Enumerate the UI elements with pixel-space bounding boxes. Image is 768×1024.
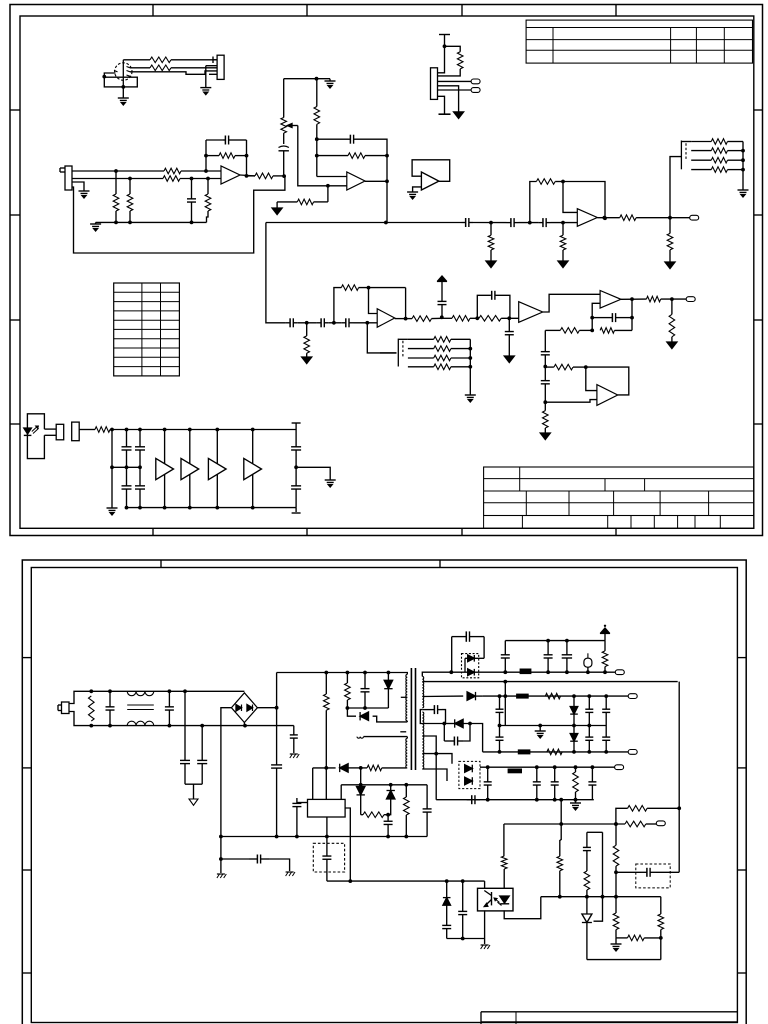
bridge rectifier BR1 <box>231 693 257 723</box>
wire fb sense column <box>677 682 681 873</box>
wire R1 to J2 <box>171 59 217 61</box>
terminal bar <box>439 113 451 115</box>
supply flag PWR2 <box>600 625 610 641</box>
output node OUT2 <box>686 297 695 302</box>
wire J7 pin1 <box>438 35 447 73</box>
op-amp A4 <box>577 209 597 227</box>
wire tl431 bottom <box>587 938 661 960</box>
wire A8 plus <box>586 367 597 391</box>
ferrite bead FB4 <box>508 769 522 773</box>
wire out4 rail <box>480 765 615 769</box>
wire ref line <box>541 895 661 899</box>
capacitor C11 <box>592 313 634 322</box>
resistor R13 <box>304 323 310 357</box>
wire A4 plus <box>563 182 577 213</box>
op-amp A2 <box>347 172 365 190</box>
capacitor C45 <box>585 726 593 752</box>
ferrite bead FB3 <box>518 750 530 754</box>
wire R3 to A1 <box>181 169 221 173</box>
potentiometer VR1 <box>281 79 298 133</box>
wire out3 rail <box>483 750 629 754</box>
sheet 2 title block <box>481 1012 737 1024</box>
wire A7 out <box>621 298 647 300</box>
diode D3 <box>347 708 407 722</box>
wire wiper run <box>298 126 330 188</box>
capacitor C3 <box>279 133 289 176</box>
op-amp A1 <box>221 166 240 184</box>
output node OUT5 <box>628 750 637 755</box>
wire R4 to A1 <box>180 177 221 181</box>
wire bridge plus <box>257 673 276 708</box>
wire DC+ rail <box>277 671 407 675</box>
wire stage rail <box>266 221 462 320</box>
capacitor C1 <box>187 179 196 223</box>
choke L1 <box>127 691 154 725</box>
capacitor C34 <box>322 843 331 881</box>
wire sec4 bottom <box>422 769 447 781</box>
capacitor C28 <box>290 726 298 753</box>
wire J7 pin4 <box>438 86 459 112</box>
dashed box X2 <box>636 864 670 888</box>
ground GND24 <box>570 800 581 810</box>
sheet 2 outer border <box>22 560 746 1024</box>
TL431 U7 <box>582 910 592 960</box>
supply bar PWR3 <box>439 34 450 36</box>
wire aux line <box>313 766 363 770</box>
wire 12v feed <box>560 800 562 824</box>
wire snubber bottom <box>347 706 388 710</box>
wire ref jog <box>594 832 603 921</box>
output node OUT3 <box>615 670 624 675</box>
capacitor C6 <box>286 318 298 327</box>
ground GND5 <box>325 79 336 88</box>
resistor R26 <box>530 179 565 223</box>
buffer U3 <box>208 430 226 508</box>
capsule housing <box>104 77 137 87</box>
wire c7-c8 <box>329 321 342 325</box>
wire R14 right <box>359 286 408 321</box>
wire J7 pin6 <box>438 96 445 114</box>
connector J3 input jack <box>60 166 72 190</box>
resistor R12 <box>317 153 389 159</box>
wire R2 to J2 <box>171 67 217 69</box>
ground GND17 <box>107 508 118 515</box>
buffer U4 <box>244 430 262 508</box>
dual diode D12 box <box>459 761 480 788</box>
resistor R4 <box>163 176 180 182</box>
wire c15-c16 <box>519 221 539 225</box>
op-amp A8 <box>597 385 618 406</box>
capacitor C12 <box>541 330 550 368</box>
capacitor C46 <box>602 726 610 752</box>
ground GND25 <box>481 945 490 949</box>
wire J2 pin3 <box>206 65 217 67</box>
connector J2 <box>213 55 224 79</box>
op-amp A3 spare <box>412 160 450 192</box>
wire A2 upper input <box>315 137 347 176</box>
resistor R51 <box>557 824 563 897</box>
capacitor C15 <box>507 218 519 227</box>
connector J6 AC inlet <box>58 702 69 714</box>
wire mid rail <box>112 466 140 468</box>
resistor R35 <box>408 355 472 361</box>
wire 12v line <box>504 822 625 826</box>
wire c8-A5 <box>354 321 378 325</box>
capacitor C51 <box>467 795 480 804</box>
resistor R50 <box>501 824 507 889</box>
wire left column <box>110 430 114 509</box>
wire A8 minus <box>545 400 597 403</box>
wire sec4 tap <box>422 754 452 764</box>
wire sec2 tap <box>422 695 463 697</box>
transformer T1 aux winding <box>400 732 407 768</box>
resistor R14 <box>334 285 359 323</box>
capacitor C9 <box>477 291 510 319</box>
capacitor C14 <box>462 218 474 227</box>
diode D10 <box>444 719 482 752</box>
capacitor C18 <box>135 430 145 470</box>
wire A4 out <box>597 216 619 220</box>
wire startup loop top <box>341 783 427 800</box>
ground GND23 <box>535 726 546 739</box>
output node OUT4 <box>628 694 637 699</box>
wire J2 pin4 <box>209 73 217 75</box>
wire A1 output <box>240 174 255 178</box>
title block bottom right <box>484 467 754 528</box>
capacitor C7 <box>317 318 329 327</box>
capacitor C40 <box>496 696 504 725</box>
wire Y-cap join <box>185 768 202 799</box>
capacitor C49 <box>551 767 559 800</box>
resistor R11 <box>314 79 320 177</box>
inductor L2 <box>357 737 407 739</box>
buffer U1 <box>156 430 174 508</box>
ground GND9 <box>504 356 514 363</box>
resistor R20 <box>646 296 686 302</box>
connector J7 <box>431 68 438 100</box>
ground GND22 <box>286 872 295 876</box>
wire top bias <box>284 77 330 81</box>
resistor R33 <box>408 337 470 343</box>
resistor R57 <box>438 46 464 76</box>
resistor R43 <box>404 785 410 837</box>
ground rail wire <box>96 221 207 225</box>
wire AC top rail <box>69 689 244 703</box>
wire right gnd stub <box>296 467 330 479</box>
ground GND12 <box>486 261 496 268</box>
resistor R1 <box>123 57 171 63</box>
resistor R42 <box>361 812 390 818</box>
diode D4 <box>340 764 360 772</box>
wire secondary gnd run <box>327 879 485 883</box>
wire A1 feedback right <box>246 140 248 176</box>
wire A6 to A7 <box>543 294 600 312</box>
wire capsule pin2 jog <box>130 71 217 74</box>
capacitor C17 <box>122 430 132 470</box>
resistor R2 <box>130 65 171 71</box>
ground GND6 <box>272 202 282 215</box>
resistor R8 <box>206 153 248 159</box>
capacitor C48 <box>533 767 541 800</box>
resistor R15 <box>406 316 442 322</box>
wire opto anode <box>484 881 486 888</box>
wire aux to IC <box>312 768 314 800</box>
capacitor C56 <box>422 705 445 723</box>
resistor R56 <box>616 935 661 941</box>
ground GND13 <box>558 261 568 268</box>
sheet 1 inner border <box>20 16 754 528</box>
wire A5 plus input <box>369 288 378 314</box>
switch S2 <box>380 339 408 367</box>
wire out1 top line <box>505 639 605 643</box>
transformer T1 primary tap <box>401 696 408 698</box>
ground GND3 <box>79 191 90 198</box>
resistor R9 <box>247 173 287 179</box>
resistor R21 <box>669 299 675 342</box>
capacitor C24 <box>165 691 174 725</box>
resistor R6 <box>127 179 133 223</box>
transformer T1 secondary 1 <box>422 676 423 707</box>
output node OUT1 <box>690 215 699 220</box>
wire quad1 feed <box>670 157 681 218</box>
wire opto collector <box>504 897 541 919</box>
wire c14 on <box>473 221 507 225</box>
op-amp A5 <box>377 309 405 328</box>
wire sense line <box>220 837 222 874</box>
wire opto emitter <box>484 910 486 938</box>
sheet 2 inner border <box>31 568 737 1023</box>
capacitor C42 <box>602 696 610 725</box>
title block top right <box>526 20 752 63</box>
wire J3 pin1 <box>72 169 164 173</box>
wire U5 right pin <box>345 808 352 883</box>
wire primary gnd rail <box>219 835 427 861</box>
capacitor C19 <box>122 467 132 507</box>
capacitor C20 <box>135 467 145 507</box>
output node P1 <box>471 79 480 84</box>
capacitor C36 <box>501 641 510 673</box>
dashed box X1 <box>313 843 344 872</box>
wire A1 feedback left <box>204 140 208 171</box>
resistor R36 <box>408 364 472 370</box>
zener D11 <box>570 726 578 752</box>
ground GND7 <box>302 357 312 364</box>
wire A2 output <box>365 156 389 223</box>
dual diode D7 box <box>452 654 484 678</box>
op-amp A7 <box>600 291 621 309</box>
ground GND4 <box>90 222 101 231</box>
wire J3 pin2 <box>72 177 193 181</box>
zener D9 <box>570 696 578 725</box>
resistor R29 <box>691 139 743 145</box>
resistor R7 <box>205 179 211 223</box>
wire J3 sleeve run <box>72 176 285 253</box>
capacitor C13 <box>541 367 550 405</box>
capacitor C38 <box>562 641 572 673</box>
border zone ticks <box>10 5 763 536</box>
capacitor C54 <box>583 832 591 871</box>
wire opto gnd rail <box>447 937 485 944</box>
ground GND20 <box>290 754 299 758</box>
diode D5 <box>357 787 365 815</box>
revision table <box>114 283 180 376</box>
wire D4 branch <box>360 768 362 785</box>
wire A7 minus <box>590 303 600 332</box>
wire J5 out <box>79 429 95 431</box>
connector J4 <box>56 424 64 440</box>
resistor R10 <box>277 186 328 205</box>
resistor R52 <box>584 871 590 910</box>
resistor R32 <box>691 167 745 173</box>
capacitor C8 <box>341 318 353 327</box>
resistor R27 <box>620 215 690 221</box>
resistor R47 <box>573 767 579 800</box>
wire to A2 input <box>328 185 347 187</box>
resistor R46 <box>547 749 562 755</box>
op-amp A6 <box>519 302 543 323</box>
capacitor C37 <box>544 641 553 673</box>
resistor R44 <box>602 641 608 673</box>
ground GND11 <box>540 433 550 440</box>
capacitor C10 <box>505 318 514 356</box>
capacitor C32 <box>221 855 290 872</box>
transformer T1 core <box>411 668 415 770</box>
buffer rail bottom <box>125 506 297 510</box>
ground GND19 PE <box>189 799 198 805</box>
ground GND1 <box>118 85 129 105</box>
resistor R40 <box>361 765 407 771</box>
IC U5 controller <box>308 799 346 817</box>
ground GND26 <box>611 938 622 951</box>
capacitor C43 <box>444 724 470 746</box>
ground GND18 <box>325 480 336 487</box>
wire out4 gnd rail <box>436 798 594 802</box>
capacitor C26 <box>197 726 207 768</box>
resistor R28 <box>667 218 673 262</box>
diode D6 zener <box>387 785 395 815</box>
wire comp loop top <box>587 831 603 833</box>
capacitor C23 <box>106 691 115 725</box>
resistor R37 <box>95 427 127 433</box>
wire sec3 tap <box>420 710 446 726</box>
capacitor C5 <box>438 296 447 318</box>
resistor R38 <box>89 696 95 721</box>
buffer rail top <box>125 428 297 432</box>
capacitor C22 <box>291 467 301 513</box>
resistor R41 <box>324 673 330 800</box>
LED D1 box <box>24 414 45 459</box>
wire quad1 common <box>742 142 744 191</box>
resistor R55 <box>613 897 619 938</box>
switch S1 <box>681 141 691 170</box>
capacitor C41 <box>585 696 593 725</box>
capacitor C16 <box>539 218 551 227</box>
capacitor C29 snubber <box>361 673 370 709</box>
resistor R39 snubber <box>345 673 351 710</box>
capacitor C2 <box>206 136 247 145</box>
resistor R5 <box>113 171 119 222</box>
capacitor C25 <box>180 691 190 768</box>
wire mid gnd rail <box>498 724 607 728</box>
ground GND21 <box>217 874 226 878</box>
connector J5 <box>72 422 80 441</box>
supply flag PWR1 <box>437 276 447 296</box>
wire center tap <box>422 736 438 800</box>
wire quad feed <box>367 323 396 353</box>
capacitor C27 bulk <box>271 706 282 839</box>
polar cap C39 <box>584 653 592 672</box>
wire c16-A4 <box>551 221 578 225</box>
capacitor C33 <box>292 798 307 837</box>
capacitor C31 <box>423 785 432 837</box>
resistor R49 sense top <box>616 806 679 825</box>
ferrite bead FB2 <box>517 694 529 698</box>
capacitor C50 <box>588 767 596 800</box>
resistor R53 <box>613 822 619 897</box>
ground GND16 <box>465 395 476 402</box>
resistor R48 <box>625 821 656 827</box>
ground GND15 <box>738 190 749 197</box>
microphone capsule J1 <box>114 60 132 87</box>
wire J3 pin3 <box>72 182 84 191</box>
buffer U2 <box>181 430 199 508</box>
resistor R30 <box>691 148 745 154</box>
capacitor C4 <box>317 135 387 156</box>
capacitor C55 <box>616 868 679 877</box>
capacitor C47 <box>484 767 492 800</box>
output node OUT6 <box>615 765 624 770</box>
resistor R3 <box>164 168 181 174</box>
ferrite bead FB1 <box>520 669 531 674</box>
wire c6-c7 <box>298 321 317 325</box>
diode D8 <box>467 692 483 700</box>
capacitor C35 <box>452 631 484 672</box>
resistor R45 <box>545 693 560 699</box>
wire sec1 top <box>422 670 453 676</box>
wire out1 return <box>422 680 677 726</box>
wire quad2 common <box>469 339 471 395</box>
wire out2 rail <box>483 694 629 698</box>
wire J7 pin3 <box>438 80 472 82</box>
wire bridge bottom stub <box>243 723 245 726</box>
wire LED out <box>44 429 56 435</box>
node mic left <box>102 73 115 79</box>
resistor R16 <box>442 316 479 322</box>
capacitor C53 <box>458 881 467 938</box>
transformer T1 primary <box>406 673 407 722</box>
wire out1 rail <box>480 670 615 674</box>
wire A4 feedback <box>563 182 607 221</box>
wire AC bottom rail <box>69 712 294 728</box>
transformer T1 secondary 2 <box>422 712 424 769</box>
optocoupler U6 <box>478 888 514 911</box>
wire J7 pin5 <box>438 89 472 91</box>
sheet 1 outer border <box>10 5 763 536</box>
resistor R23 <box>543 402 549 433</box>
capacitor C44 <box>496 726 504 752</box>
ground GND8 <box>407 192 418 199</box>
diode D2 clamp <box>384 673 392 709</box>
ground GND14 <box>665 262 675 269</box>
resistor R22 <box>545 364 587 370</box>
ground GND2 <box>200 66 211 95</box>
resistor R24 <box>488 223 494 261</box>
resistor R17 <box>479 316 519 322</box>
ground GND27 <box>454 112 464 119</box>
wire lower path <box>266 223 286 323</box>
wire A8 loop <box>586 367 629 395</box>
output node P2 <box>471 88 480 93</box>
